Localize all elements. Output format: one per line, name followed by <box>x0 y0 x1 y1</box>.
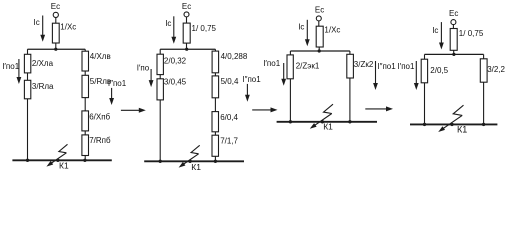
wire resistor 3 to bottom bus (circuit 4) <box>483 82 485 124</box>
top bus wire (circuit 1) <box>28 48 86 50</box>
svg-text:I′по1: I′по1 <box>398 62 416 71</box>
current arrow I″po1 (circuit 2) <box>242 75 261 102</box>
svg-text:1/Хс: 1/Хс <box>60 22 76 31</box>
resistor 1/Xc (circuit 1) <box>52 22 76 43</box>
svg-text:5/0,4: 5/0,4 <box>221 77 239 86</box>
wire resistor 5 to resistor 6 (circuit 2) <box>214 98 216 112</box>
wire resistor 6 to resistor 7 (circuit 1) <box>84 131 86 135</box>
junction node (circuit 3 top) <box>318 49 321 52</box>
junction node right (circuit 4 bottom) <box>482 123 485 126</box>
resistor 2/0,32 (circuit 2) <box>157 54 187 74</box>
resistor 1/0,75 (circuit 2) <box>183 23 216 43</box>
current arrow I′po (circuit 2) <box>137 63 154 87</box>
source terminal circle (circuit 1) <box>53 12 58 17</box>
resistor 7/1,7 (circuit 2) <box>212 135 239 156</box>
resistor 5/0,4 (circuit 2) <box>212 76 239 98</box>
svg-text:2/0,5: 2/0,5 <box>430 66 448 75</box>
svg-text:3/Rла: 3/Rла <box>32 82 54 91</box>
svg-text:Ic: Ic <box>34 18 40 27</box>
resistor 3/0,45 (circuit 2) <box>157 78 187 100</box>
wire resistor 2 to resistor 3 (circuit 2) <box>159 75 161 79</box>
current arrow I′po1 (circuit 4) <box>398 61 419 90</box>
wire top bus to resistor 3 (circuit 3) <box>349 51 351 54</box>
fault node dot (circuit 3) <box>321 120 324 123</box>
source terminal circle (circuit 2) <box>184 12 189 17</box>
resistor 7/Rpb (circuit 1) <box>82 135 111 156</box>
svg-text:7/Rпб: 7/Rпб <box>89 136 111 145</box>
svg-text:I″по1: I″по1 <box>108 79 127 88</box>
junction node (circuit 2 top) <box>185 48 188 51</box>
svg-text:2/0,32: 2/0,32 <box>164 57 187 66</box>
svg-text:3/0,45: 3/0,45 <box>164 78 187 87</box>
svg-text:I′по1: I′по1 <box>263 59 281 68</box>
transformation arrow circuit 3 to 4 <box>365 106 393 111</box>
resistor 4/Xlv (circuit 1) <box>82 51 111 71</box>
svg-text:1/Хс: 1/Хс <box>324 26 340 35</box>
wire resistor 5 to resistor 6 (circuit 1) <box>84 98 86 111</box>
svg-text:Ec: Ec <box>182 2 191 11</box>
wire top bus to resistor 3 (circuit 4) <box>483 54 485 58</box>
svg-text:I″по1: I″по1 <box>377 62 396 71</box>
wire resistor 3 to bottom bus (circuit 1) <box>27 99 29 161</box>
wire source to resistor 1 (circuit 3) <box>318 21 320 26</box>
svg-text:Ec: Ec <box>449 9 458 18</box>
fault label K1 (circuit 3) <box>323 121 333 131</box>
wire resistor 4 to resistor 5 (circuit 1) <box>84 71 86 75</box>
transformation arrow circuit 2 to 3 <box>252 107 277 112</box>
svg-text:3/Zк2: 3/Zк2 <box>354 60 374 69</box>
svg-text:I′по1: I′по1 <box>2 62 20 71</box>
current arrow I′po1 (circuit 1) <box>2 59 21 84</box>
junction node (circuit 1 top) <box>54 48 57 51</box>
fault label K1 (circuit 2) <box>191 162 201 172</box>
resistor 3/Zk2 (circuit 3) <box>347 54 374 78</box>
fault label K1 (circuit 4) <box>457 124 467 134</box>
bottom bus wire (circuit 2) <box>144 160 244 162</box>
svg-text:Ic: Ic <box>165 19 171 28</box>
fault node dot (circuit 1) <box>56 159 59 162</box>
junction node left (circuit 2 bottom) <box>159 160 162 163</box>
wire resistor 6 to resistor 7 (circuit 2) <box>214 132 216 135</box>
bottom bus wire (circuit 3) <box>277 121 377 123</box>
resistor 2/Zek1 (circuit 3) <box>287 55 320 79</box>
transformation arrow circuit 1 to 2 <box>121 108 146 113</box>
svg-text:К1: К1 <box>191 162 201 172</box>
junction node right (circuit 2 bottom) <box>214 160 217 163</box>
wire top bus to resistor 2 (circuit 2) <box>159 49 161 54</box>
wire resistor 7 to bottom bus (circuit 2) <box>214 156 216 161</box>
current arrow I″po1 (circuit 3) <box>373 61 396 90</box>
resistor 2/Xla (circuit 1) <box>24 54 53 73</box>
svg-text:I′по: I′по <box>137 63 150 72</box>
svg-text:Ec: Ec <box>51 2 60 11</box>
current arrow Ic (circuit 4) <box>432 22 444 49</box>
svg-text:6/Хпб: 6/Хпб <box>89 112 110 121</box>
current arrow Ic (circuit 3) <box>298 20 310 46</box>
fault node dot (circuit 4) <box>450 123 453 126</box>
fault label K1 (circuit 1) <box>59 161 69 171</box>
wire resistor 7 to bottom bus (circuit 1) <box>84 156 86 161</box>
wire resistor 2 to bottom bus (circuit 4) <box>424 83 426 125</box>
short-circuit fault arrow K1 (circuit 3) <box>310 104 333 129</box>
svg-text:1/ 0,75: 1/ 0,75 <box>459 29 484 38</box>
wire resistor 1 to top bus (circuit 2) <box>186 43 188 49</box>
svg-text:3/2,2: 3/2,2 <box>487 65 505 74</box>
wire top bus to resistor 2 (circuit 4) <box>424 54 426 59</box>
svg-text:К1: К1 <box>323 121 333 131</box>
junction node left (circuit 4 bottom) <box>423 123 426 126</box>
wire resistor 2 to resistor 3 (circuit 1) <box>27 73 29 80</box>
source label Ec (circuit 3) <box>315 5 324 14</box>
current arrow I″po1 (circuit 1) <box>108 79 127 105</box>
svg-text:4/0,288: 4/0,288 <box>221 52 248 61</box>
short-circuit fault arrow K1 (circuit 1) <box>46 144 67 166</box>
svg-text:7/1,7: 7/1,7 <box>220 136 238 145</box>
svg-text:К1: К1 <box>457 124 467 134</box>
source label Ec (circuit 4) <box>449 9 458 18</box>
junction node (circuit 4 top) <box>452 53 455 56</box>
resistor 5/Rlv (circuit 1) <box>82 75 111 97</box>
top bus wire (circuit 2) <box>160 48 215 50</box>
fault node dot (circuit 2) <box>188 160 191 163</box>
junction node right (circuit 3 bottom) <box>348 120 351 123</box>
wire top bus to resistor 2 (circuit 3) <box>289 51 291 55</box>
current arrow I′po1 (circuit 3) <box>263 59 286 86</box>
resistor 6/0,4 (circuit 2) <box>212 112 239 132</box>
svg-text:2/Zэк1: 2/Zэк1 <box>296 61 320 70</box>
source label Ec (circuit 2) <box>182 2 191 11</box>
wire source to resistor 1 (circuit 1) <box>55 18 57 24</box>
junction node left (circuit 3 bottom) <box>289 120 292 123</box>
resistor 3/Rla (circuit 1) <box>24 80 54 99</box>
wire resistor 1 to top bus (circuit 3) <box>318 47 320 51</box>
bottom bus wire (circuit 4) <box>410 123 497 125</box>
svg-text:2/Хла: 2/Хла <box>32 59 54 68</box>
short-circuit fault arrow K1 (circuit 4) <box>438 105 463 132</box>
svg-text:Ic: Ic <box>298 23 304 32</box>
source label Ec (circuit 1) <box>51 2 60 11</box>
current arrow Ic (circuit 1) <box>34 16 46 42</box>
wire top bus to resistor 2 (circuit 1) <box>27 49 29 54</box>
svg-text:Ec: Ec <box>315 5 324 14</box>
wire resistor 2 to bottom bus (circuit 3) <box>289 79 291 122</box>
wire top bus to resistor 4 (circuit 2) <box>214 49 216 51</box>
wire top bus to resistor 4 (circuit 1) <box>84 49 86 51</box>
resistor 1/0,75 (circuit 4) <box>450 29 484 51</box>
resistor 2/0,5 (circuit 4) <box>421 59 448 83</box>
wire resistor 3 to bottom bus (circuit 2) <box>159 100 161 161</box>
svg-text:К1: К1 <box>59 161 69 171</box>
resistor 1/Xc (circuit 3) <box>316 26 340 48</box>
wire source to resistor 1 (circuit 2) <box>186 17 188 23</box>
svg-text:Ic: Ic <box>432 26 438 35</box>
wire resistor 3 to bottom bus (circuit 3) <box>349 78 351 122</box>
svg-text:1/ 0,75: 1/ 0,75 <box>192 24 217 33</box>
svg-text:6/0,4: 6/0,4 <box>220 113 238 122</box>
junction node left (circuit 1 bottom) <box>26 159 29 162</box>
svg-text:I″по1: I″по1 <box>242 75 261 84</box>
svg-text:4/Хлв: 4/Хлв <box>90 52 111 61</box>
source terminal circle (circuit 4) <box>451 20 456 25</box>
current arrow Ic (circuit 2) <box>165 16 176 44</box>
junction node right (circuit 1 bottom) <box>83 159 86 162</box>
bottom bus wire (circuit 1) <box>12 159 111 161</box>
resistor 3/2,2 (circuit 4) <box>480 59 505 82</box>
wire source to resistor 1 (circuit 4) <box>452 25 454 29</box>
short-circuit fault arrow K1 (circuit 2) <box>179 145 200 167</box>
wire resistor 1 to top bus (circuit 4) <box>453 50 455 54</box>
resistor 4/0,288 (circuit 2) <box>212 51 248 73</box>
wire resistor 1 to top bus (circuit 1) <box>55 43 57 49</box>
top bus wire (circuit 3) <box>290 50 350 52</box>
top bus wire (circuit 4) <box>425 53 484 55</box>
resistor 6/Xpb (circuit 1) <box>82 111 111 131</box>
source terminal circle (circuit 3) <box>316 16 321 21</box>
wire resistor 4 to resistor 5 (circuit 2) <box>214 73 216 76</box>
